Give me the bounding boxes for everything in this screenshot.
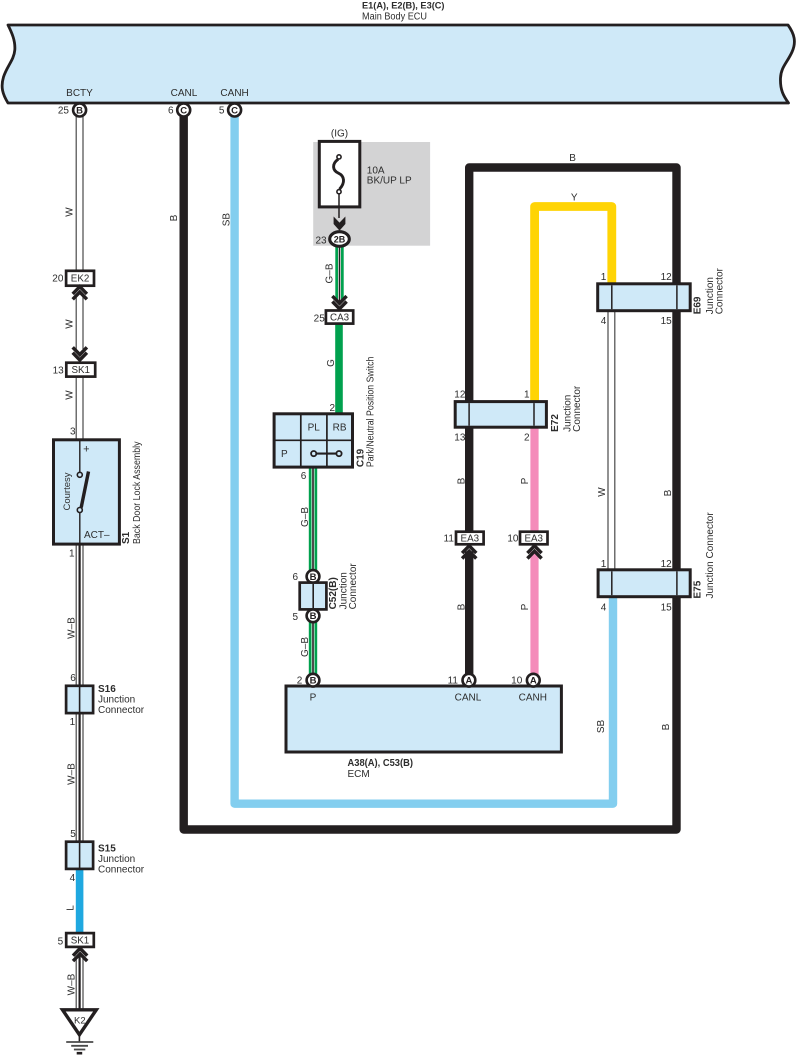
ground K2 triangle xyxy=(63,1010,97,1035)
svg-text:C: C xyxy=(231,105,238,116)
svg-text:G: G xyxy=(326,359,337,367)
svg-text:W–B: W–B xyxy=(66,763,77,785)
switch C19 Park/Neutral Position Switch xyxy=(274,414,352,467)
svg-text:EK2: EK2 xyxy=(71,274,90,285)
svg-text:23: 23 xyxy=(315,235,327,246)
svg-text:6: 6 xyxy=(292,572,298,583)
junction connector S15 xyxy=(66,842,93,869)
svg-text:12: 12 xyxy=(661,272,673,283)
arrow chevrons below EA3 pin 10 xyxy=(527,546,541,553)
wire from fuse to pin 23 xyxy=(338,194,340,218)
wire P from EA3 to ECM pin 10 CANH xyxy=(530,551,538,676)
solid arrow into pin 23 xyxy=(334,217,346,231)
svg-text:B: B xyxy=(663,489,674,496)
svg-text:EA3: EA3 xyxy=(461,533,480,544)
svg-text:Connector: Connector xyxy=(98,705,145,716)
svg-text:G–B: G–B xyxy=(324,263,335,283)
svg-text:SB: SB xyxy=(596,720,607,734)
svg-text:P: P xyxy=(520,477,531,484)
svg-text:BK/UP LP: BK/UP LP xyxy=(367,175,412,186)
svg-text:(IG): (IG) xyxy=(331,128,348,139)
svg-text:S16: S16 xyxy=(98,684,116,695)
svg-text:6: 6 xyxy=(168,106,174,117)
svg-text:1: 1 xyxy=(601,272,607,283)
svg-text:2: 2 xyxy=(524,432,530,443)
svg-text:L: L xyxy=(66,905,77,911)
svg-text:BCTY: BCTY xyxy=(66,88,93,99)
svg-text:11: 11 xyxy=(448,676,459,687)
ECU A38(A) C53(B) ECM box xyxy=(286,686,561,752)
svg-text:2: 2 xyxy=(297,676,303,687)
ignition fuse panel (gray background) xyxy=(313,142,430,246)
svg-text:Connector: Connector xyxy=(715,267,726,314)
arrow chevrons above CA3 xyxy=(332,296,346,303)
arrow chevrons below EK2 xyxy=(73,287,87,294)
svg-text:CA3: CA3 xyxy=(330,312,350,323)
svg-text:Park/Neutral Position Switch: Park/Neutral Position Switch xyxy=(365,357,376,468)
svg-text:E75: E75 xyxy=(693,580,704,598)
svg-text:G–B: G–B xyxy=(300,637,311,657)
junction connector C52(B) xyxy=(300,583,327,610)
arrow chevrons below lower SK1 xyxy=(73,948,87,955)
wire W from E69 pin 4 to E75 pin 1 xyxy=(607,309,609,571)
wire B loop from CANL pin 6 via bottom and right side to E72 pin 12 xyxy=(184,114,677,830)
svg-text:20: 20 xyxy=(52,273,64,284)
svg-text:4: 4 xyxy=(601,316,607,327)
svg-text:B: B xyxy=(569,153,576,164)
switch S1 Courtesy (Back Door Lock Assembly) xyxy=(54,440,120,544)
svg-text:10: 10 xyxy=(507,533,519,544)
svg-text:10: 10 xyxy=(511,676,523,687)
junction connector S16 xyxy=(66,686,93,713)
svg-text:15: 15 xyxy=(661,602,673,613)
svg-text:EA3: EA3 xyxy=(524,533,543,544)
svg-text:G–B: G–B xyxy=(300,507,311,527)
svg-text:ECM: ECM xyxy=(348,769,370,780)
arrow chevrons above SK1 xyxy=(73,347,87,354)
svg-text:A38(A), C53(B): A38(A), C53(B) xyxy=(348,758,414,769)
arrow chevrons below EA3 pin 11 xyxy=(462,546,476,553)
svg-text:5: 5 xyxy=(70,829,76,840)
svg-text:6: 6 xyxy=(301,471,307,482)
svg-text:CANL: CANL xyxy=(171,88,198,99)
svg-text:5: 5 xyxy=(292,612,298,623)
junction connector E75 xyxy=(598,570,690,597)
svg-text:Connector: Connector xyxy=(572,385,583,432)
svg-text:E1(A), E2(B), E3(C): E1(A), E2(B), E3(C) xyxy=(362,0,445,11)
svg-text:11: 11 xyxy=(444,533,455,544)
svg-text:13: 13 xyxy=(454,432,466,443)
svg-text:E72: E72 xyxy=(550,414,561,432)
svg-text:1: 1 xyxy=(69,549,75,560)
svg-text:P: P xyxy=(310,692,317,703)
junction connector E69 xyxy=(598,284,691,311)
svg-text:ACT–: ACT– xyxy=(84,530,110,541)
fuse BK/UP LP 10A box xyxy=(319,141,360,207)
svg-text:SK1: SK1 xyxy=(71,365,90,376)
svg-text:CANH: CANH xyxy=(519,692,547,703)
svg-text:1: 1 xyxy=(524,390,530,401)
wire W-B from S16 pin 1 to S15 pin 5 xyxy=(75,712,77,843)
svg-text:25: 25 xyxy=(58,106,70,117)
svg-text:B: B xyxy=(310,676,317,687)
svg-text:Connector: Connector xyxy=(348,563,359,610)
wire Y from E72 pin 1 over the top to E69 pin 1 xyxy=(535,207,612,404)
svg-text:13: 13 xyxy=(53,365,65,376)
svg-text:E69: E69 xyxy=(692,296,703,314)
svg-text:5: 5 xyxy=(219,106,225,117)
junction connector E72 xyxy=(455,402,546,428)
wire G from CA3 to C19 pin 2 xyxy=(335,323,343,416)
svg-text:W: W xyxy=(597,487,608,497)
svg-text:Y: Y xyxy=(571,193,578,204)
svg-text:4: 4 xyxy=(70,873,76,884)
svg-text:A: A xyxy=(530,676,537,687)
wire W from SK1 to S1 pin 3 xyxy=(75,375,77,441)
wire P from E72 pin 2 to EA3 xyxy=(530,426,538,533)
svg-text:1: 1 xyxy=(70,717,76,728)
svg-text:5: 5 xyxy=(58,936,64,947)
wire B from E72 pin 13 to EA3 xyxy=(465,426,473,533)
wire G-B from fuse pin 23 2B to CA3 xyxy=(335,245,343,300)
svg-text:B: B xyxy=(661,723,672,730)
wire W from BCTY pin 25 to EK2 xyxy=(75,116,77,272)
svg-text:12: 12 xyxy=(454,390,466,401)
svg-text:1: 1 xyxy=(601,559,607,570)
svg-text:B: B xyxy=(169,214,180,221)
svg-text:Connector: Connector xyxy=(98,864,145,875)
svg-text:B: B xyxy=(310,611,317,622)
svg-text:15: 15 xyxy=(661,316,673,327)
svg-text:Junction: Junction xyxy=(98,694,135,705)
svg-text:25: 25 xyxy=(314,313,326,324)
svg-text:B: B xyxy=(456,477,467,484)
svg-text:W: W xyxy=(65,207,76,217)
svg-text:2B: 2B xyxy=(334,234,346,244)
svg-text:S15: S15 xyxy=(98,843,116,854)
svg-text:K2: K2 xyxy=(74,1015,86,1026)
svg-text:RB: RB xyxy=(333,423,347,434)
svg-text:SK1: SK1 xyxy=(71,935,90,946)
wire G-B from C52 pin 5 to ECM pin 2 xyxy=(309,622,317,675)
svg-text:B: B xyxy=(76,105,83,116)
svg-text:Junction Connector: Junction Connector xyxy=(705,512,716,599)
svg-text:SB: SB xyxy=(221,213,232,227)
wire W-B from SK1 to ground K2 xyxy=(75,956,77,1011)
wire W from EK2 to SK1 xyxy=(75,294,77,349)
ECU band E1(A) E2(B) E3(C) Main Body ECU xyxy=(2,25,794,103)
wire G-B from C19 pin 6 to C52 pin 6 xyxy=(309,466,317,571)
svg-text:CANH: CANH xyxy=(220,88,248,99)
svg-text:W: W xyxy=(65,319,76,329)
svg-text:C: C xyxy=(180,105,187,116)
svg-text:+: + xyxy=(83,444,89,456)
svg-text:W: W xyxy=(65,390,76,400)
svg-text:B: B xyxy=(456,603,467,610)
svg-text:CANL: CANL xyxy=(455,692,482,703)
wire B from EA3 to ECM pin 11 CANL xyxy=(465,551,473,676)
svg-text:W–B: W–B xyxy=(66,617,77,639)
svg-text:A: A xyxy=(465,676,472,687)
svg-text:4: 4 xyxy=(601,602,607,613)
svg-text:S1: S1 xyxy=(121,531,132,544)
ground symbol xyxy=(78,1035,80,1042)
wire L from S15 pin 4 to SK1 xyxy=(76,868,84,934)
svg-text:Courtesy: Courtesy xyxy=(62,472,73,510)
svg-text:Main Body ECU: Main Body ECU xyxy=(362,12,427,23)
svg-text:PL: PL xyxy=(308,423,321,434)
wire W-B from S1 pin 1 to S16 pin 6 xyxy=(75,542,77,687)
svg-text:3: 3 xyxy=(70,427,76,438)
svg-text:W–B: W–B xyxy=(66,973,77,995)
svg-text:P: P xyxy=(520,603,531,610)
svg-text:P: P xyxy=(281,449,288,460)
wire SB from CANH pin 5 via bottom to E75 pin 4 xyxy=(235,114,613,804)
svg-text:Back Door Lock Assembly: Back Door Lock Assembly xyxy=(132,442,143,545)
svg-text:Junction: Junction xyxy=(98,854,135,865)
svg-text:6: 6 xyxy=(70,673,76,684)
svg-text:12: 12 xyxy=(661,559,673,570)
